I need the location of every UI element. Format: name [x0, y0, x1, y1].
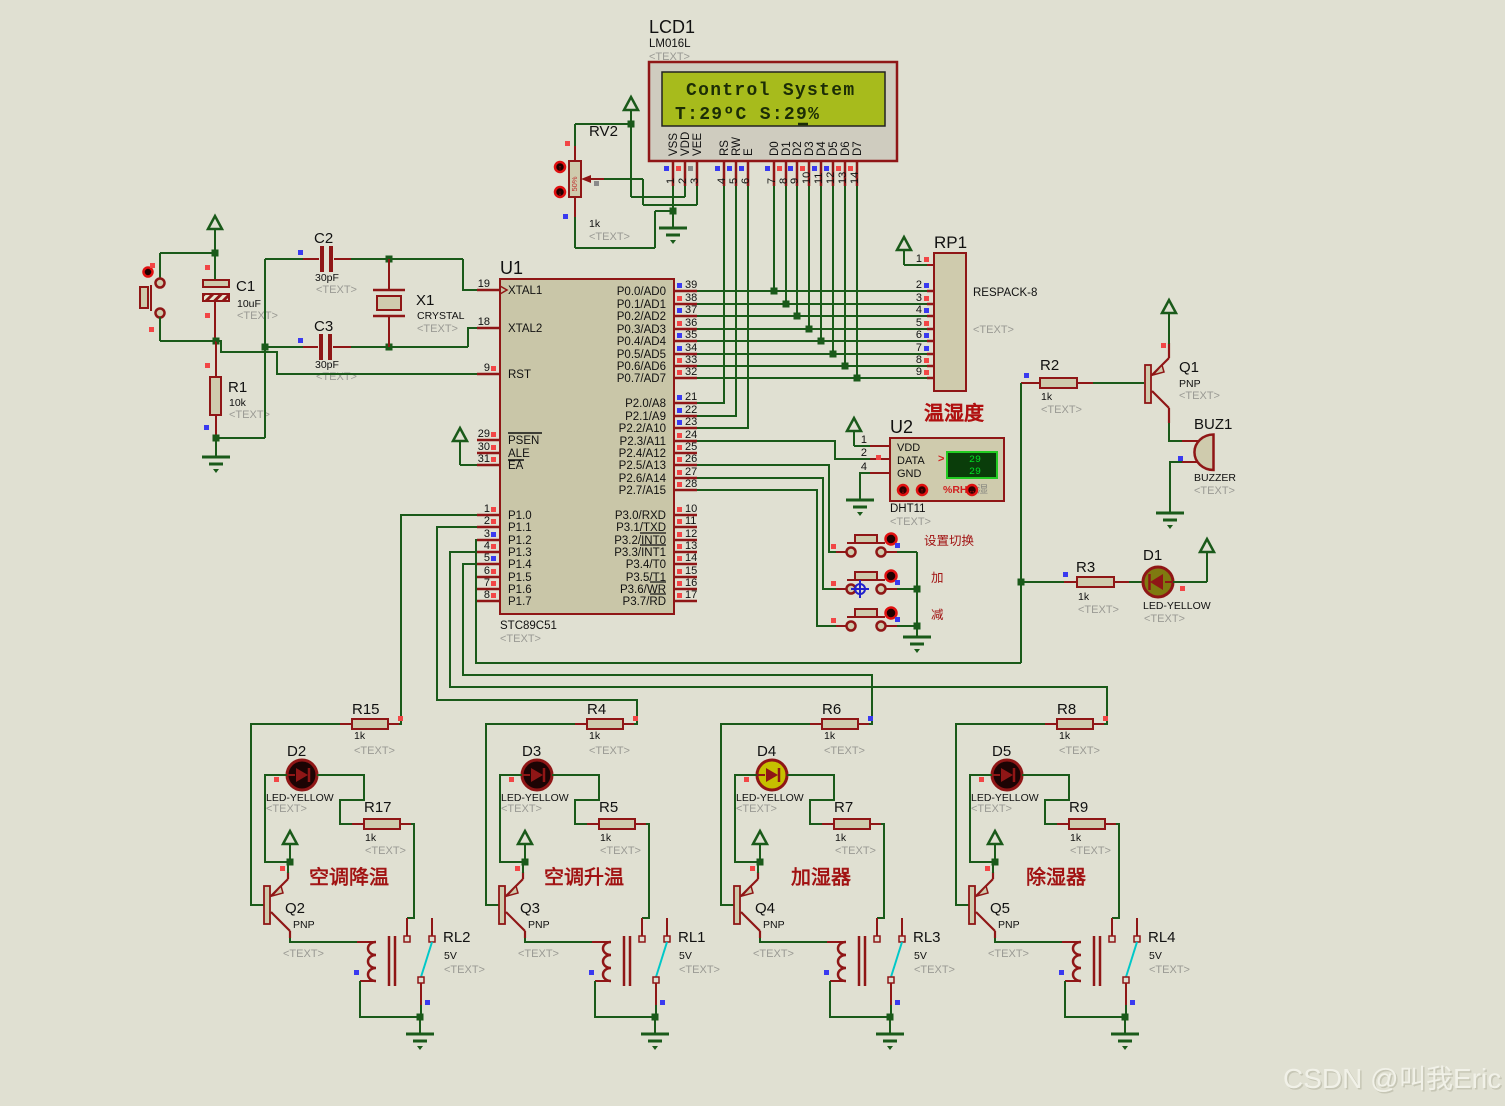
- svg-text:PNP: PNP: [763, 919, 785, 931]
- wire P1.0 to R15: [389, 515, 477, 724]
- svg-text:35: 35: [685, 329, 697, 341]
- svg-text:C1: C1: [236, 278, 255, 295]
- node RV2 top junction: [628, 121, 635, 128]
- relay contact pins: [406, 918, 408, 936]
- svg-text:22: 22: [685, 404, 697, 416]
- node emitter junction: [992, 859, 999, 866]
- svg-text:1k: 1k: [1041, 391, 1053, 403]
- push button: [836, 551, 847, 553]
- svg-text:10: 10: [801, 172, 813, 184]
- resistor R15: [340, 723, 352, 725]
- svg-text:7: 7: [916, 342, 922, 354]
- svg-text:<TEXT>: <TEXT>: [1078, 604, 1119, 616]
- svg-text:↑: ↑: [558, 165, 562, 172]
- svg-text:BUZZER: BUZZER: [1194, 472, 1236, 484]
- pin 15 P3.5/T1 U1: [674, 576, 697, 579]
- wire R17 to contact: [877, 824, 884, 918]
- wire coil to gnd: [1065, 981, 1125, 1017]
- svg-text:Eric: Eric: [1453, 1063, 1501, 1094]
- svg-text:↓: ↓: [901, 488, 905, 495]
- wire button to gnd bus: [897, 551, 917, 553]
- push button reset: [144, 268, 153, 277]
- led D5 LED-YELLOW: [992, 760, 1022, 790]
- svg-text:8: 8: [916, 354, 922, 366]
- svg-text:<TEXT>: <TEXT>: [988, 948, 1029, 960]
- pin 8 RP1: [927, 365, 934, 368]
- svg-text:P3.0/RXD: P3.0/RXD: [615, 510, 666, 522]
- wire R17 to contact: [642, 824, 649, 918]
- buzzer BUZ1: [1182, 440, 1199, 442]
- svg-text:RV2: RV2: [589, 123, 618, 140]
- wire R2 node down: [1020, 383, 1022, 663]
- svg-text:<TEXT>: <TEXT>: [444, 964, 485, 976]
- svg-text:U2: U2: [890, 417, 913, 437]
- svg-text:21: 21: [685, 391, 697, 403]
- svg-text:9: 9: [484, 362, 490, 374]
- svg-text:10uF: 10uF: [237, 298, 261, 310]
- pin 25 P2.4/A12 U1: [674, 452, 697, 455]
- svg-text:4: 4: [861, 461, 867, 473]
- svg-text:38: 38: [685, 292, 697, 304]
- svg-text:RESPACK-8: RESPACK-8: [973, 287, 1037, 299]
- svg-text:1: 1: [916, 253, 922, 265]
- svg-text:PNP: PNP: [528, 919, 550, 931]
- svg-text:27: 27: [685, 466, 697, 478]
- svg-text:6: 6: [740, 178, 752, 184]
- wire EA: [460, 464, 477, 466]
- wire P1.2 to R3 net: [476, 540, 1021, 663]
- svg-text:RL4: RL4: [1148, 929, 1176, 946]
- svg-text:R4: R4: [587, 701, 606, 718]
- power arrow channel: [283, 831, 297, 844]
- svg-text:D7: D7: [852, 141, 864, 156]
- capacitor C3: [265, 346, 303, 348]
- svg-text:14: 14: [685, 552, 697, 564]
- svg-text:18: 18: [478, 316, 490, 328]
- svg-text:D6: D6: [840, 141, 852, 156]
- node VSS gnd junction: [670, 208, 677, 215]
- svg-text:LM016L: LM016L: [649, 38, 691, 50]
- svg-text:9: 9: [789, 178, 801, 184]
- svg-text:Q2: Q2: [285, 900, 305, 917]
- node emitter junction: [287, 859, 294, 866]
- svg-text:26: 26: [685, 453, 697, 465]
- pin 24 P2.3/A11 U1: [674, 440, 697, 443]
- node relay gnd junction: [417, 1014, 424, 1021]
- svg-text:6: 6: [484, 565, 490, 577]
- wire RST to U1 pin9: [216, 341, 477, 374]
- button label: [931, 572, 942, 583]
- resistor R9: [1057, 823, 1069, 825]
- relay RL2: [357, 941, 376, 943]
- svg-text:D5: D5: [828, 141, 840, 156]
- svg-text:28: 28: [685, 478, 697, 490]
- pin 10 P3.0/RXD U1: [674, 514, 697, 517]
- pin 29 PSEN U1: [477, 439, 500, 442]
- svg-text:1k: 1k: [1070, 832, 1082, 844]
- pin 37 P0.2/AD2 U1: [674, 315, 697, 318]
- resistor R1: [215, 341, 217, 377]
- wire led cathode to R17: [317, 775, 364, 824]
- svg-text:R15: R15: [352, 701, 380, 718]
- wire P2 to button: [697, 478, 836, 589]
- svg-text:1: 1: [484, 503, 490, 515]
- svg-text:D3: D3: [804, 141, 816, 156]
- push button: [836, 625, 847, 627]
- node relay gnd junction: [652, 1014, 659, 1021]
- pin 17 P3.7/RD U1: [674, 600, 697, 603]
- svg-text:RS: RS: [719, 140, 731, 156]
- svg-text:D4: D4: [816, 141, 828, 156]
- led D2 LED-YELLOW: [287, 760, 317, 790]
- wire collector to relay coil: [290, 938, 357, 942]
- svg-text:EA: EA: [508, 460, 524, 472]
- svg-text:VDD: VDD: [897, 442, 920, 454]
- svg-text:R17: R17: [364, 799, 392, 816]
- wire VDD net: [684, 186, 686, 197]
- ground (relay): [419, 1017, 421, 1033]
- relay contact pins: [641, 918, 643, 936]
- wire to base: [956, 724, 1045, 905]
- wire R17 to contact: [1112, 824, 1119, 918]
- relay contact pins: [1111, 918, 1113, 936]
- svg-text:RL2: RL2: [443, 929, 471, 946]
- pin 34 P0.5/AD5 U1: [674, 353, 697, 356]
- svg-text:P0.4/AD4: P0.4/AD4: [617, 336, 667, 348]
- wire blade to gnd: [655, 1005, 657, 1017]
- svg-text:X1: X1: [416, 292, 434, 309]
- capacitor C2: [265, 258, 303, 260]
- svg-text:<TEXT>: <TEXT>: [971, 803, 1012, 815]
- svg-text:5: 5: [484, 552, 490, 564]
- relay blade: [421, 942, 432, 977]
- svg-text:<TEXT>: <TEXT>: [283, 948, 324, 960]
- wire led anode to power node: [500, 775, 525, 862]
- svg-text:<TEXT>: <TEXT>: [316, 371, 357, 383]
- pin 7 P1.6 U1: [477, 588, 500, 591]
- wire blade to gnd: [420, 1005, 422, 1017]
- svg-text:D2: D2: [287, 743, 306, 760]
- svg-text:DHT11: DHT11: [890, 503, 926, 515]
- wire P2.2 to LCD E: [697, 186, 748, 428]
- wire to base: [251, 724, 340, 905]
- svg-text:P2.7/A15: P2.7/A15: [619, 485, 666, 497]
- svg-text:VDD: VDD: [680, 132, 692, 156]
- svg-text:Q3: Q3: [520, 900, 540, 917]
- relay contact pins: [876, 918, 878, 936]
- svg-text:VEE: VEE: [692, 133, 704, 156]
- pin 23 P2.2/A10 U1: [674, 427, 697, 430]
- svg-text:12: 12: [685, 528, 697, 540]
- wire U2 VDD: [854, 445, 870, 447]
- pin 38 P0.1/AD1 U1: [674, 303, 697, 306]
- svg-text:30pF: 30pF: [315, 272, 339, 284]
- wire emitter: [992, 862, 994, 873]
- pin 21 P2.0/A8 U1: [674, 402, 697, 405]
- svg-text:P3.3/INT1: P3.3/INT1: [614, 547, 666, 559]
- wire RP1 pin1: [904, 264, 927, 266]
- node R3 junction: [1018, 579, 1025, 586]
- svg-text:VSS: VSS: [668, 133, 680, 156]
- svg-text:P0.3/AD3: P0.3/AD3: [617, 324, 666, 336]
- wire gnd to C2/C3: [216, 437, 265, 439]
- resistor R3: [1021, 581, 1064, 583]
- relay RL3: [827, 941, 846, 943]
- wire emitter: [287, 862, 289, 873]
- svg-text:<TEXT>: <TEXT>: [1041, 404, 1082, 416]
- wire to base: [721, 724, 810, 905]
- pin 33 P0.6/AD6 U1: [674, 365, 697, 368]
- pin 39 P0.0/AD0 U1: [674, 290, 697, 293]
- pin 19 XTAL1 U1: [477, 289, 500, 292]
- node relay gnd junction: [1122, 1014, 1129, 1021]
- wire led anode to power node: [970, 775, 995, 862]
- svg-text:15: 15: [685, 565, 697, 577]
- wire P1.3 to R8: [450, 552, 1107, 724]
- svg-text:P2.4/A12: P2.4/A12: [619, 448, 666, 460]
- svg-text:DATA: DATA: [897, 455, 925, 467]
- svg-text:P2.1/A9: P2.1/A9: [625, 411, 666, 423]
- wire R17 to contact: [407, 824, 414, 918]
- svg-text:<TEXT>: <TEXT>: [890, 516, 931, 528]
- resistor R2: [1021, 382, 1040, 384]
- svg-text:50%: 50%: [570, 176, 579, 191]
- wire led cathode to R17: [1022, 775, 1069, 824]
- svg-text:<TEXT>: <TEXT>: [824, 745, 865, 757]
- svg-text:CSDN @: CSDN @: [1283, 1063, 1399, 1094]
- transistor Q3 PNP: [499, 886, 505, 924]
- node R1 bottom junction: [213, 435, 220, 442]
- svg-text:<TEXT>: <TEXT>: [1194, 485, 1235, 497]
- svg-text:29: 29: [969, 467, 981, 478]
- led D3 LED-YELLOW: [522, 760, 552, 790]
- svg-text:R8: R8: [1057, 701, 1076, 718]
- svg-text:P3.7/RD: P3.7/RD: [623, 596, 666, 608]
- svg-text:13: 13: [685, 540, 697, 552]
- svg-text:29: 29: [969, 455, 981, 466]
- svg-text:XTAL2: XTAL2: [508, 323, 542, 335]
- label wenshidu: [925, 403, 983, 422]
- pin 13 P3.3/INT1 U1: [674, 551, 697, 554]
- power +5V arrow (reset section): [208, 216, 222, 229]
- svg-text:<TEXT>: <TEXT>: [501, 803, 542, 815]
- svg-text:4: 4: [716, 178, 728, 184]
- wire RV2 top: [575, 123, 631, 125]
- svg-text:P2.6/A14: P2.6/A14: [619, 473, 667, 485]
- svg-text:32: 32: [685, 366, 697, 378]
- svg-text:11: 11: [685, 515, 696, 527]
- svg-text:D2: D2: [792, 141, 804, 156]
- pin19 clk marker: [500, 286, 507, 294]
- svg-text:T:29ºC S:29%: T:29ºC S:29%: [675, 105, 820, 125]
- ground (buzzer): [1156, 512, 1184, 515]
- wire led anode to power node: [735, 775, 760, 862]
- lcd cursor: [798, 123, 808, 126]
- svg-text:P1.0: P1.0: [508, 510, 532, 522]
- led D1 LED-YELLOW: [1143, 567, 1173, 597]
- svg-text:PNP: PNP: [1179, 378, 1201, 390]
- pin 7 RP1: [927, 353, 934, 356]
- svg-text:%RH: %RH: [943, 484, 968, 496]
- power arrow channel: [753, 831, 767, 844]
- svg-text:10k: 10k: [229, 397, 247, 409]
- svg-text:5V: 5V: [679, 950, 692, 962]
- svg-text:D3: D3: [522, 743, 541, 760]
- svg-text:P1.4: P1.4: [508, 559, 532, 571]
- svg-text:36: 36: [685, 317, 697, 329]
- wire button to gnd bus: [897, 588, 917, 590]
- svg-text:<TEXT>: <TEXT>: [1059, 745, 1100, 757]
- wire led anode to power node: [265, 775, 290, 862]
- relay RL4: [1062, 941, 1081, 943]
- svg-text:<TEXT>: <TEXT>: [237, 310, 278, 322]
- svg-text:R9: R9: [1069, 799, 1088, 816]
- svg-text:3: 3: [916, 292, 922, 304]
- crystal X1: [388, 259, 390, 290]
- wire buzzer to gnd: [1170, 462, 1182, 512]
- pin 12 P3.2/INT0 U1: [674, 539, 697, 542]
- wire led cathode to R17: [787, 775, 834, 824]
- pin 11 P3.1/TXD U1: [674, 526, 697, 529]
- pin 2 P1.1 U1: [477, 526, 500, 529]
- node relay gnd junction: [887, 1014, 894, 1021]
- svg-text:Q5: Q5: [990, 900, 1010, 917]
- svg-text:D1: D1: [1143, 547, 1162, 564]
- svg-text:5: 5: [916, 317, 922, 329]
- wire emitter: [522, 862, 524, 873]
- node emitter junction: [522, 859, 529, 866]
- sensor U2 DHT11: [890, 438, 1004, 501]
- pin 18 XTAL2 U1: [477, 327, 500, 330]
- pin 36 P0.3/AD3 U1: [674, 328, 697, 331]
- pin 22 P2.1/A9 U1: [674, 415, 697, 418]
- svg-text:P0.7/AD7: P0.7/AD7: [617, 373, 666, 385]
- channel label: [546, 867, 624, 886]
- svg-text:LCD1: LCD1: [649, 17, 695, 37]
- svg-text:LED-YELLOW: LED-YELLOW: [1143, 600, 1211, 612]
- svg-text:2: 2: [677, 178, 689, 184]
- wire LCD VSS to gnd: [672, 186, 674, 211]
- svg-text:1: 1: [665, 178, 677, 184]
- svg-text:<TEXT>: <TEXT>: [835, 845, 876, 857]
- relay RL1: [592, 941, 611, 943]
- svg-text:19: 19: [478, 278, 490, 290]
- wire emitter: [757, 862, 759, 873]
- svg-text:RL1: RL1: [678, 929, 706, 946]
- pin 32 P0.7/AD7 U1: [674, 377, 697, 380]
- wire RV2 bottom to gnd: [574, 217, 576, 248]
- svg-text:1: 1: [861, 434, 867, 446]
- led D4 LED-YELLOW: [757, 760, 787, 790]
- wire P2 to button: [697, 465, 836, 552]
- svg-text:R1: R1: [228, 379, 247, 396]
- svg-text:STC89C51: STC89C51: [500, 620, 557, 632]
- svg-text:2: 2: [484, 515, 490, 527]
- svg-text:24: 24: [685, 429, 697, 441]
- svg-text:<TEXT>: <TEXT>: [365, 845, 406, 857]
- ground (buttons): [903, 636, 931, 639]
- svg-text:14: 14: [849, 172, 861, 184]
- svg-text:GND: GND: [897, 468, 922, 480]
- svg-text:C2: C2: [314, 230, 333, 247]
- pin 3 RP1: [927, 303, 934, 306]
- pin 14 P3.4/T0 U1: [674, 563, 697, 566]
- wire to base: [486, 724, 575, 905]
- relay blade: [656, 942, 667, 977]
- svg-text:13: 13: [837, 172, 849, 184]
- svg-text:P3.4/T0: P3.4/T0: [626, 559, 666, 571]
- mcu U1 STC89C51: [500, 279, 674, 614]
- svg-text:P1.2: P1.2: [508, 535, 532, 547]
- pin 31 EA U1: [477, 464, 500, 467]
- wire RV2 wiper to VEE: [604, 178, 643, 180]
- wire P2.0 to LCD RS: [697, 186, 724, 403]
- svg-text:P1.3: P1.3: [508, 547, 532, 559]
- pin 8 P1.7 U1: [477, 600, 500, 603]
- pin 4 P1.3 U1: [477, 551, 500, 554]
- svg-text:>: >: [938, 453, 944, 465]
- svg-text:5V: 5V: [914, 950, 927, 962]
- wire collector to relay coil: [760, 938, 827, 942]
- svg-text:<TEXT>: <TEXT>: [600, 845, 641, 857]
- ground (relay): [654, 1017, 656, 1033]
- svg-text:30: 30: [478, 441, 490, 453]
- svg-text:17: 17: [685, 589, 697, 601]
- svg-text:1k: 1k: [1059, 730, 1071, 742]
- svg-text:31: 31: [478, 453, 490, 465]
- transistor Q1 PNP: [1145, 365, 1151, 403]
- svg-text:<TEXT>: <TEXT>: [229, 409, 270, 421]
- wire coil to gnd: [830, 981, 890, 1017]
- svg-text:R5: R5: [599, 799, 618, 816]
- svg-text:P2.5/A13: P2.5/A13: [619, 460, 666, 472]
- resistor R7: [822, 823, 834, 825]
- wires LCD data D0-D7 to P0 bus: [773, 186, 775, 291]
- svg-text:P2.3/A11: P2.3/A11: [620, 436, 666, 448]
- wire U2 GND to ground: [860, 473, 870, 499]
- pin 16 P3.6/WR U1: [674, 588, 697, 591]
- svg-text:P2.0/A8: P2.0/A8: [625, 398, 666, 410]
- svg-text:<TEXT>: <TEXT>: [589, 231, 630, 243]
- pin 30 ALE U1: [477, 452, 500, 455]
- wire: [159, 317, 161, 341]
- pot RV2 1k: [574, 146, 576, 161]
- svg-text:↔: ↔: [969, 488, 976, 495]
- svg-text:RL3: RL3: [913, 929, 941, 946]
- svg-text:D4: D4: [757, 743, 776, 760]
- resistor R4: [575, 723, 587, 725]
- svg-text:7: 7: [484, 577, 490, 589]
- wire C2 to XTAL1: [463, 259, 477, 290]
- resistor R5: [587, 823, 599, 825]
- svg-text:16: 16: [685, 577, 697, 589]
- svg-text:P0.5/AD5: P0.5/AD5: [617, 349, 666, 361]
- pin 1 RP1: [927, 264, 934, 266]
- svg-text:11: 11: [813, 173, 825, 184]
- svg-text:39: 39: [685, 279, 697, 291]
- svg-text:RST: RST: [508, 369, 531, 381]
- svg-text:R2: R2: [1040, 357, 1059, 374]
- svg-text:R7: R7: [834, 799, 853, 816]
- wire blade to gnd: [1125, 1005, 1127, 1017]
- power arrow D1: [1200, 539, 1214, 552]
- svg-text:<TEXT>: <TEXT>: [266, 803, 307, 815]
- pin 35 P0.4/AD4 U1: [674, 340, 697, 343]
- svg-text:<TEXT>: <TEXT>: [753, 948, 794, 960]
- svg-text:1k: 1k: [1078, 591, 1090, 603]
- svg-text:5: 5: [728, 178, 740, 184]
- svg-text:PNP: PNP: [998, 919, 1020, 931]
